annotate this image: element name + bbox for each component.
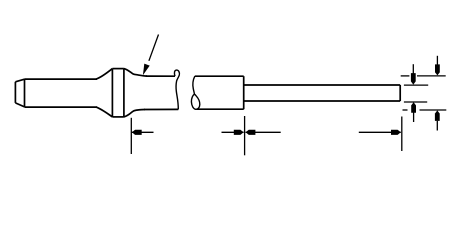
rivet body top edge [146, 75, 175, 77]
body diameter bottom arrow shaft [436, 121, 438, 131]
rivet shank top edge [25, 78, 98, 80]
extension line body bottom edge (right side) segment 2 [420, 109, 447, 111]
dimension line B shaft (right arrow of stem length dimension) [359, 131, 401, 133]
stem diameter top arrow shaft [412, 64, 414, 74]
rivet flange top edge [112, 68, 124, 70]
mandrel stem bottom edge [244, 100, 401, 102]
leader arrowhead [143, 64, 150, 76]
dimension B right arrowhead [391, 130, 401, 135]
leader line to rivet head [149, 35, 159, 61]
extension line at mandrel stem end [401, 117, 403, 152]
dimension B left arrowhead [246, 130, 256, 135]
rivet flange left edge [111, 69, 113, 117]
rivet head curve top [124, 69, 147, 77]
rivet fillet shank-to-flange bottom [96, 107, 112, 117]
stem diameter bottom arrowhead [411, 102, 416, 113]
dimension A right arrowhead [234, 130, 244, 135]
stem diameter bottom arrow shaft [413, 112, 415, 122]
extension line at mandrel head right face [244, 116, 246, 155]
mandrel head right end face [243, 76, 245, 109]
extension line body top edge (right side) segment 2 [417, 75, 446, 77]
mandrel stem top edge [244, 84, 401, 86]
mandrel head top edge [195, 75, 244, 77]
body diameter top arrowhead [435, 64, 440, 75]
rivet flange bottom edge [112, 116, 124, 118]
body diameter bottom arrowhead [435, 110, 440, 121]
rivet tip chamfer bottom [15, 103, 24, 107]
rivet body bottom edge [144, 108, 178, 110]
body diameter top arrow shaft [436, 56, 438, 66]
rivet body break line (S-break) [174, 70, 179, 109]
rivet tip chamfer top [15, 79, 24, 82]
dimension A left arrowhead [132, 130, 142, 135]
mandrel head break line (S-break) [191, 76, 199, 109]
rivet shank bottom edge [25, 106, 98, 108]
rivet flange right edge [123, 69, 125, 117]
extension line body top edge (right side) segment 1 [401, 75, 410, 77]
dimension line A shaft (left arrow of grip dimension) [132, 131, 154, 133]
dimension line B shaft (left arrow of stem length dimension) [246, 131, 281, 133]
rivet fillet shank-to-flange top [96, 69, 112, 80]
mandrel stem right end face [399, 85, 401, 101]
extension line stem top edge (right side) [404, 84, 428, 86]
rivet tip chamfer edge line [24, 79, 26, 107]
rivet head curve bottom [124, 110, 145, 117]
extension line at rivet head right face [130, 118, 132, 154]
rivet tip end face [14, 82, 16, 103]
mandrel head bottom edge [197, 108, 244, 110]
dimension line A shaft (right arrow of grip dimension) [222, 131, 244, 133]
extension line body bottom edge (right side) segment 1 [403, 109, 408, 111]
extension line stem bottom edge (right side) [404, 101, 427, 103]
stem diameter top arrowhead [411, 73, 416, 85]
